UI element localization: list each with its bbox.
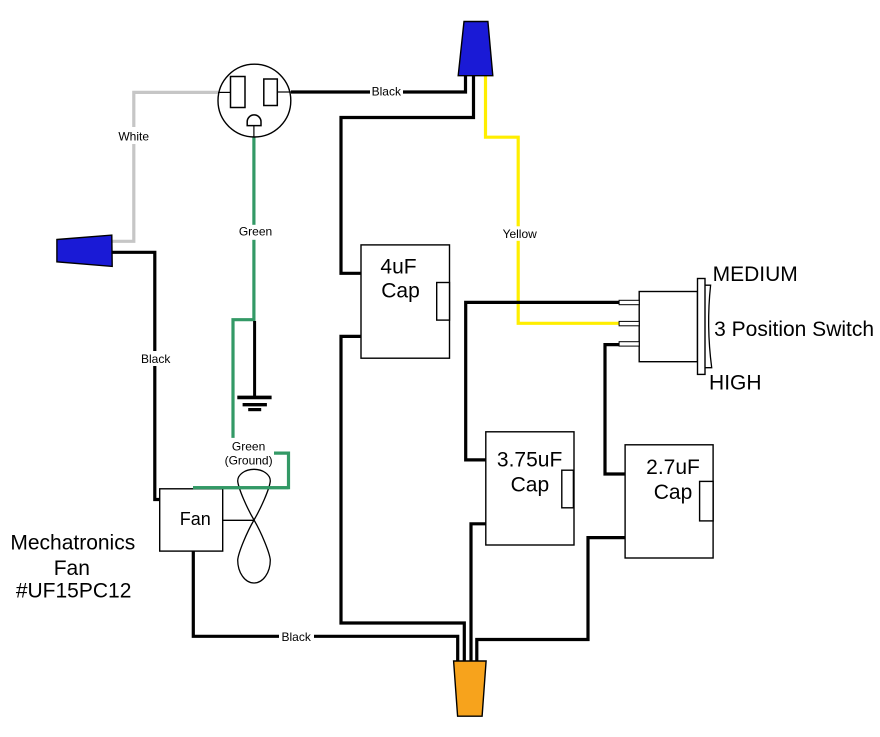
wire green (plug ground pin down to ground symbol tee) <box>252 137 255 320</box>
svg-text:2.7uF: 2.7uF <box>646 456 700 479</box>
wire black (2.7uF cap bottom pin to orange wire nut) <box>477 538 625 662</box>
wire green (ground label to fan top) <box>193 453 289 488</box>
svg-text:Green: Green <box>232 440 265 454</box>
svg-text:Fan: Fan <box>54 557 90 580</box>
wire green overlay on fan top <box>193 486 289 489</box>
svg-text:3 Position Switch: 3 Position Switch <box>714 318 874 341</box>
svg-text:Cap: Cap <box>381 279 420 302</box>
svg-text:HIGH: HIGH <box>709 372 762 395</box>
label Yellow <box>501 226 539 241</box>
label MEDIUM <box>713 263 798 286</box>
svg-text:Fan: Fan <box>180 509 211 529</box>
wire white neutral (plug to left wire nut) <box>113 92 219 241</box>
wire nut (blue, top) <box>458 22 493 76</box>
svg-text:Cap: Cap <box>511 474 550 497</box>
wire black hot (plug to blue wire nut) <box>291 74 466 92</box>
svg-text:3.75uF: 3.75uF <box>497 449 562 472</box>
switch pin 3 (high) <box>619 342 639 346</box>
wire black (3.75uF cap bottom pin to orange wire nut) <box>471 524 486 662</box>
wire green (tee left and down to Green Ground label) <box>233 320 256 438</box>
wire black (switch bottom pin to 2.7uF cap top pin) <box>605 345 625 474</box>
svg-text:(Ground): (Ground) <box>225 454 273 468</box>
plug hot prong <box>264 79 278 106</box>
capacitor 2.7uF box <box>625 445 713 558</box>
ground symbol <box>237 321 271 410</box>
label White <box>115 127 152 144</box>
svg-text:White: White <box>118 130 149 144</box>
wire yellow (blue nut to switch middle pin) <box>486 74 621 323</box>
wire black (left blue nut down to fan box) <box>113 252 161 499</box>
svg-text:Green: Green <box>239 225 272 239</box>
wire black (fan bottom to orange wire nut) <box>193 551 457 662</box>
wire black (switch top pin to 3.75uF cap top pin) <box>466 302 620 460</box>
wire black (blue nut down to 4uF cap top pin) <box>341 74 474 273</box>
switch pin 1 (medium) <box>619 300 639 304</box>
capacitor 4uF box <box>361 245 450 358</box>
plug ground pin <box>247 115 261 126</box>
label Black (bottom) <box>279 629 314 644</box>
label Black (left) <box>139 351 173 366</box>
capacitor 3.75uF box <box>486 432 574 545</box>
svg-text:Cap: Cap <box>654 481 693 504</box>
label Black (top) <box>370 84 403 99</box>
label Green (upper) <box>238 225 273 240</box>
wire nut (blue, left) <box>57 235 112 266</box>
svg-text:Black: Black <box>282 630 312 644</box>
fan blades <box>223 469 270 583</box>
wire nut (orange, bottom) <box>454 661 487 716</box>
plug neutral prong <box>231 77 246 108</box>
svg-text:Black: Black <box>372 85 402 99</box>
plug P1 (AC outlet face) <box>218 64 291 137</box>
svg-text:Mechatronics: Mechatronics <box>10 532 135 555</box>
fan box <box>160 489 223 551</box>
wire black (4uF cap bottom pin to orange wire nut) <box>341 336 464 662</box>
svg-text:#UF15PC12: #UF15PC12 <box>16 580 132 603</box>
switch S1 (3 position) body <box>619 279 712 375</box>
svg-text:Yellow: Yellow <box>503 227 538 241</box>
svg-text:MEDIUM: MEDIUM <box>713 263 798 286</box>
svg-text:4uF: 4uF <box>380 255 416 278</box>
switch pin 2 (common) <box>619 321 639 325</box>
label Green (Ground) <box>224 439 274 468</box>
label HIGH <box>709 372 762 395</box>
label Mechatronics Fan #UF15PC12 <box>10 532 135 603</box>
svg-text:Black: Black <box>141 352 171 366</box>
label 3 Position Switch <box>714 318 874 341</box>
